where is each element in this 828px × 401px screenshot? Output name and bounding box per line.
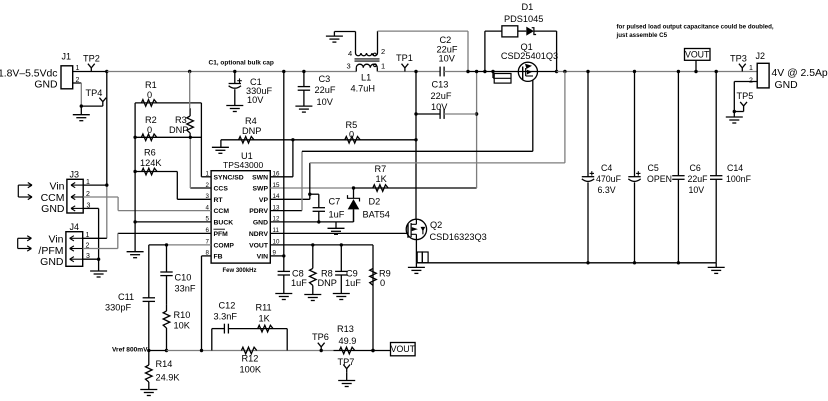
svg-text:VOUT: VOUT xyxy=(249,243,269,250)
svg-text:Vin: Vin xyxy=(50,181,65,193)
svg-text:J2: J2 xyxy=(756,51,766,61)
svg-text:C1, optional bulk cap: C1, optional bulk cap xyxy=(209,60,274,67)
svg-text:D1: D1 xyxy=(522,2,534,12)
svg-text:C14: C14 xyxy=(727,163,743,173)
svg-text:C6: C6 xyxy=(690,163,701,173)
svg-text:0: 0 xyxy=(147,90,152,100)
svg-text:BAT54: BAT54 xyxy=(363,210,390,220)
svg-text:0: 0 xyxy=(147,125,152,135)
svg-text:4.7uH: 4.7uH xyxy=(351,84,376,94)
svg-text:1: 1 xyxy=(381,62,385,71)
svg-text:1K: 1K xyxy=(376,174,388,184)
svg-text:VP: VP xyxy=(259,197,269,204)
svg-text:CSD25401Q3: CSD25401Q3 xyxy=(501,51,558,61)
svg-text:R7: R7 xyxy=(375,164,387,174)
svg-text:CCS: CCS xyxy=(214,186,229,193)
svg-text:GND: GND xyxy=(40,256,64,268)
svg-text:C11: C11 xyxy=(118,292,134,302)
svg-text:470uF: 470uF xyxy=(596,174,622,184)
svg-text:6.3V: 6.3V xyxy=(598,185,616,195)
svg-text:1uF: 1uF xyxy=(291,278,307,288)
svg-text:10V: 10V xyxy=(439,54,456,64)
svg-text:1: 1 xyxy=(749,65,753,72)
svg-text:124K: 124K xyxy=(140,158,162,168)
svg-text:TP3: TP3 xyxy=(730,54,747,64)
svg-text:PDS1045: PDS1045 xyxy=(504,14,543,24)
svg-text:DNP: DNP xyxy=(169,125,188,135)
svg-text:R9: R9 xyxy=(379,268,391,278)
svg-text:C12: C12 xyxy=(219,301,236,311)
svg-text:TP6: TP6 xyxy=(312,332,329,342)
svg-text:PDRV: PDRV xyxy=(249,208,268,215)
svg-text:330pF: 330pF xyxy=(105,303,131,313)
svg-text:TP4: TP4 xyxy=(86,88,103,98)
svg-text:BUCK: BUCK xyxy=(214,220,234,227)
svg-text:NDRV: NDRV xyxy=(249,231,269,238)
svg-text:1K: 1K xyxy=(259,314,271,324)
svg-text:C3: C3 xyxy=(319,74,331,84)
svg-text:R11: R11 xyxy=(256,303,272,313)
svg-text:Few 300kHz: Few 300kHz xyxy=(223,268,257,274)
svg-text:R6: R6 xyxy=(144,148,156,158)
svg-text:22uF: 22uF xyxy=(431,91,452,101)
svg-text:SWP: SWP xyxy=(253,186,269,193)
svg-text:GND: GND xyxy=(41,203,65,215)
svg-text:0: 0 xyxy=(349,130,354,140)
svg-text:DNP: DNP xyxy=(318,278,337,288)
svg-text:DNP: DNP xyxy=(242,126,261,136)
svg-text:4: 4 xyxy=(348,49,352,58)
svg-text:C10: C10 xyxy=(175,273,192,283)
svg-text:J3: J3 xyxy=(70,170,80,180)
svg-text:C4: C4 xyxy=(601,163,612,173)
svg-text:Vin: Vin xyxy=(49,234,64,246)
svg-text:for pulsed load output capacit: for pulsed load output capacitance could… xyxy=(617,24,774,31)
svg-text:VOUT: VOUT xyxy=(391,344,416,354)
svg-text:GND: GND xyxy=(253,220,268,227)
svg-text:CCM: CCM xyxy=(214,208,230,215)
svg-text:R5: R5 xyxy=(346,120,358,130)
svg-text:C5: C5 xyxy=(648,163,659,173)
svg-text:TP7: TP7 xyxy=(338,357,355,367)
svg-text:R4: R4 xyxy=(245,116,257,126)
svg-text:OPEN: OPEN xyxy=(647,174,672,184)
svg-text:R8: R8 xyxy=(321,268,333,278)
svg-text:CSD16323Q3: CSD16323Q3 xyxy=(430,232,487,242)
svg-text:10V: 10V xyxy=(431,102,448,112)
svg-text:R1: R1 xyxy=(145,80,157,90)
svg-text:R12: R12 xyxy=(242,354,259,364)
svg-text:TP1: TP1 xyxy=(396,53,413,63)
svg-text:SYNC/SD: SYNC/SD xyxy=(214,174,244,181)
svg-text:10K: 10K xyxy=(174,320,191,330)
svg-text:C7: C7 xyxy=(329,197,341,207)
svg-text:J4: J4 xyxy=(70,222,80,232)
svg-text:TPS43000: TPS43000 xyxy=(223,160,263,170)
svg-text:10V: 10V xyxy=(317,97,334,107)
svg-text:22uF: 22uF xyxy=(688,174,709,184)
svg-text:VIN: VIN xyxy=(257,254,268,261)
svg-text:R2: R2 xyxy=(145,115,157,125)
svg-text:1uF: 1uF xyxy=(329,210,345,220)
svg-text:22uF: 22uF xyxy=(315,85,336,95)
svg-text:L1: L1 xyxy=(361,73,371,83)
svg-text:100K: 100K xyxy=(240,365,262,375)
svg-text:TP2: TP2 xyxy=(83,54,100,64)
svg-text:GND: GND xyxy=(34,80,57,91)
svg-text:3: 3 xyxy=(347,62,351,71)
svg-text:Q2: Q2 xyxy=(430,220,442,230)
svg-text:COMP: COMP xyxy=(214,243,235,250)
svg-text:FB: FB xyxy=(214,254,223,261)
svg-text:1uF: 1uF xyxy=(345,278,361,288)
svg-text:/PFM: /PFM xyxy=(38,245,63,257)
svg-text:10V: 10V xyxy=(689,185,705,195)
svg-text:R3: R3 xyxy=(175,115,187,125)
svg-text:CCM: CCM xyxy=(41,192,65,204)
svg-text:VOUT: VOUT xyxy=(685,50,710,60)
svg-text:R13: R13 xyxy=(337,324,354,334)
svg-text:10V: 10V xyxy=(247,95,264,105)
svg-text:D2: D2 xyxy=(369,197,381,207)
svg-text:100nF: 100nF xyxy=(726,174,752,184)
svg-text:C13: C13 xyxy=(432,80,449,90)
svg-text:C2: C2 xyxy=(440,35,452,45)
svg-text:TP5: TP5 xyxy=(737,91,754,101)
svg-text:SWN: SWN xyxy=(252,174,268,181)
svg-text:4V @ 2.5Apk: 4V @ 2.5Apk xyxy=(772,68,828,79)
svg-text:24.9K: 24.9K xyxy=(156,372,181,382)
svg-text:1.8V–5.5Vdc: 1.8V–5.5Vdc xyxy=(0,69,58,80)
svg-text:C8: C8 xyxy=(292,268,304,278)
svg-text:GND: GND xyxy=(775,80,798,91)
svg-text:0: 0 xyxy=(380,278,385,288)
svg-text:2: 2 xyxy=(381,47,385,56)
svg-text:PFM: PFM xyxy=(214,231,229,238)
svg-text:just assemble C5: just assemble C5 xyxy=(616,32,668,39)
svg-text:RT: RT xyxy=(214,197,224,204)
svg-text:C9: C9 xyxy=(346,268,358,278)
svg-text:R10: R10 xyxy=(174,310,191,320)
svg-text:R14: R14 xyxy=(156,359,173,369)
svg-text:J1: J1 xyxy=(62,52,72,62)
svg-text:Vref 800mV: Vref 800mV xyxy=(112,347,148,354)
svg-text:33nF: 33nF xyxy=(175,284,196,294)
svg-text:3.3nF: 3.3nF xyxy=(214,312,238,322)
svg-text:49.9: 49.9 xyxy=(339,336,357,346)
